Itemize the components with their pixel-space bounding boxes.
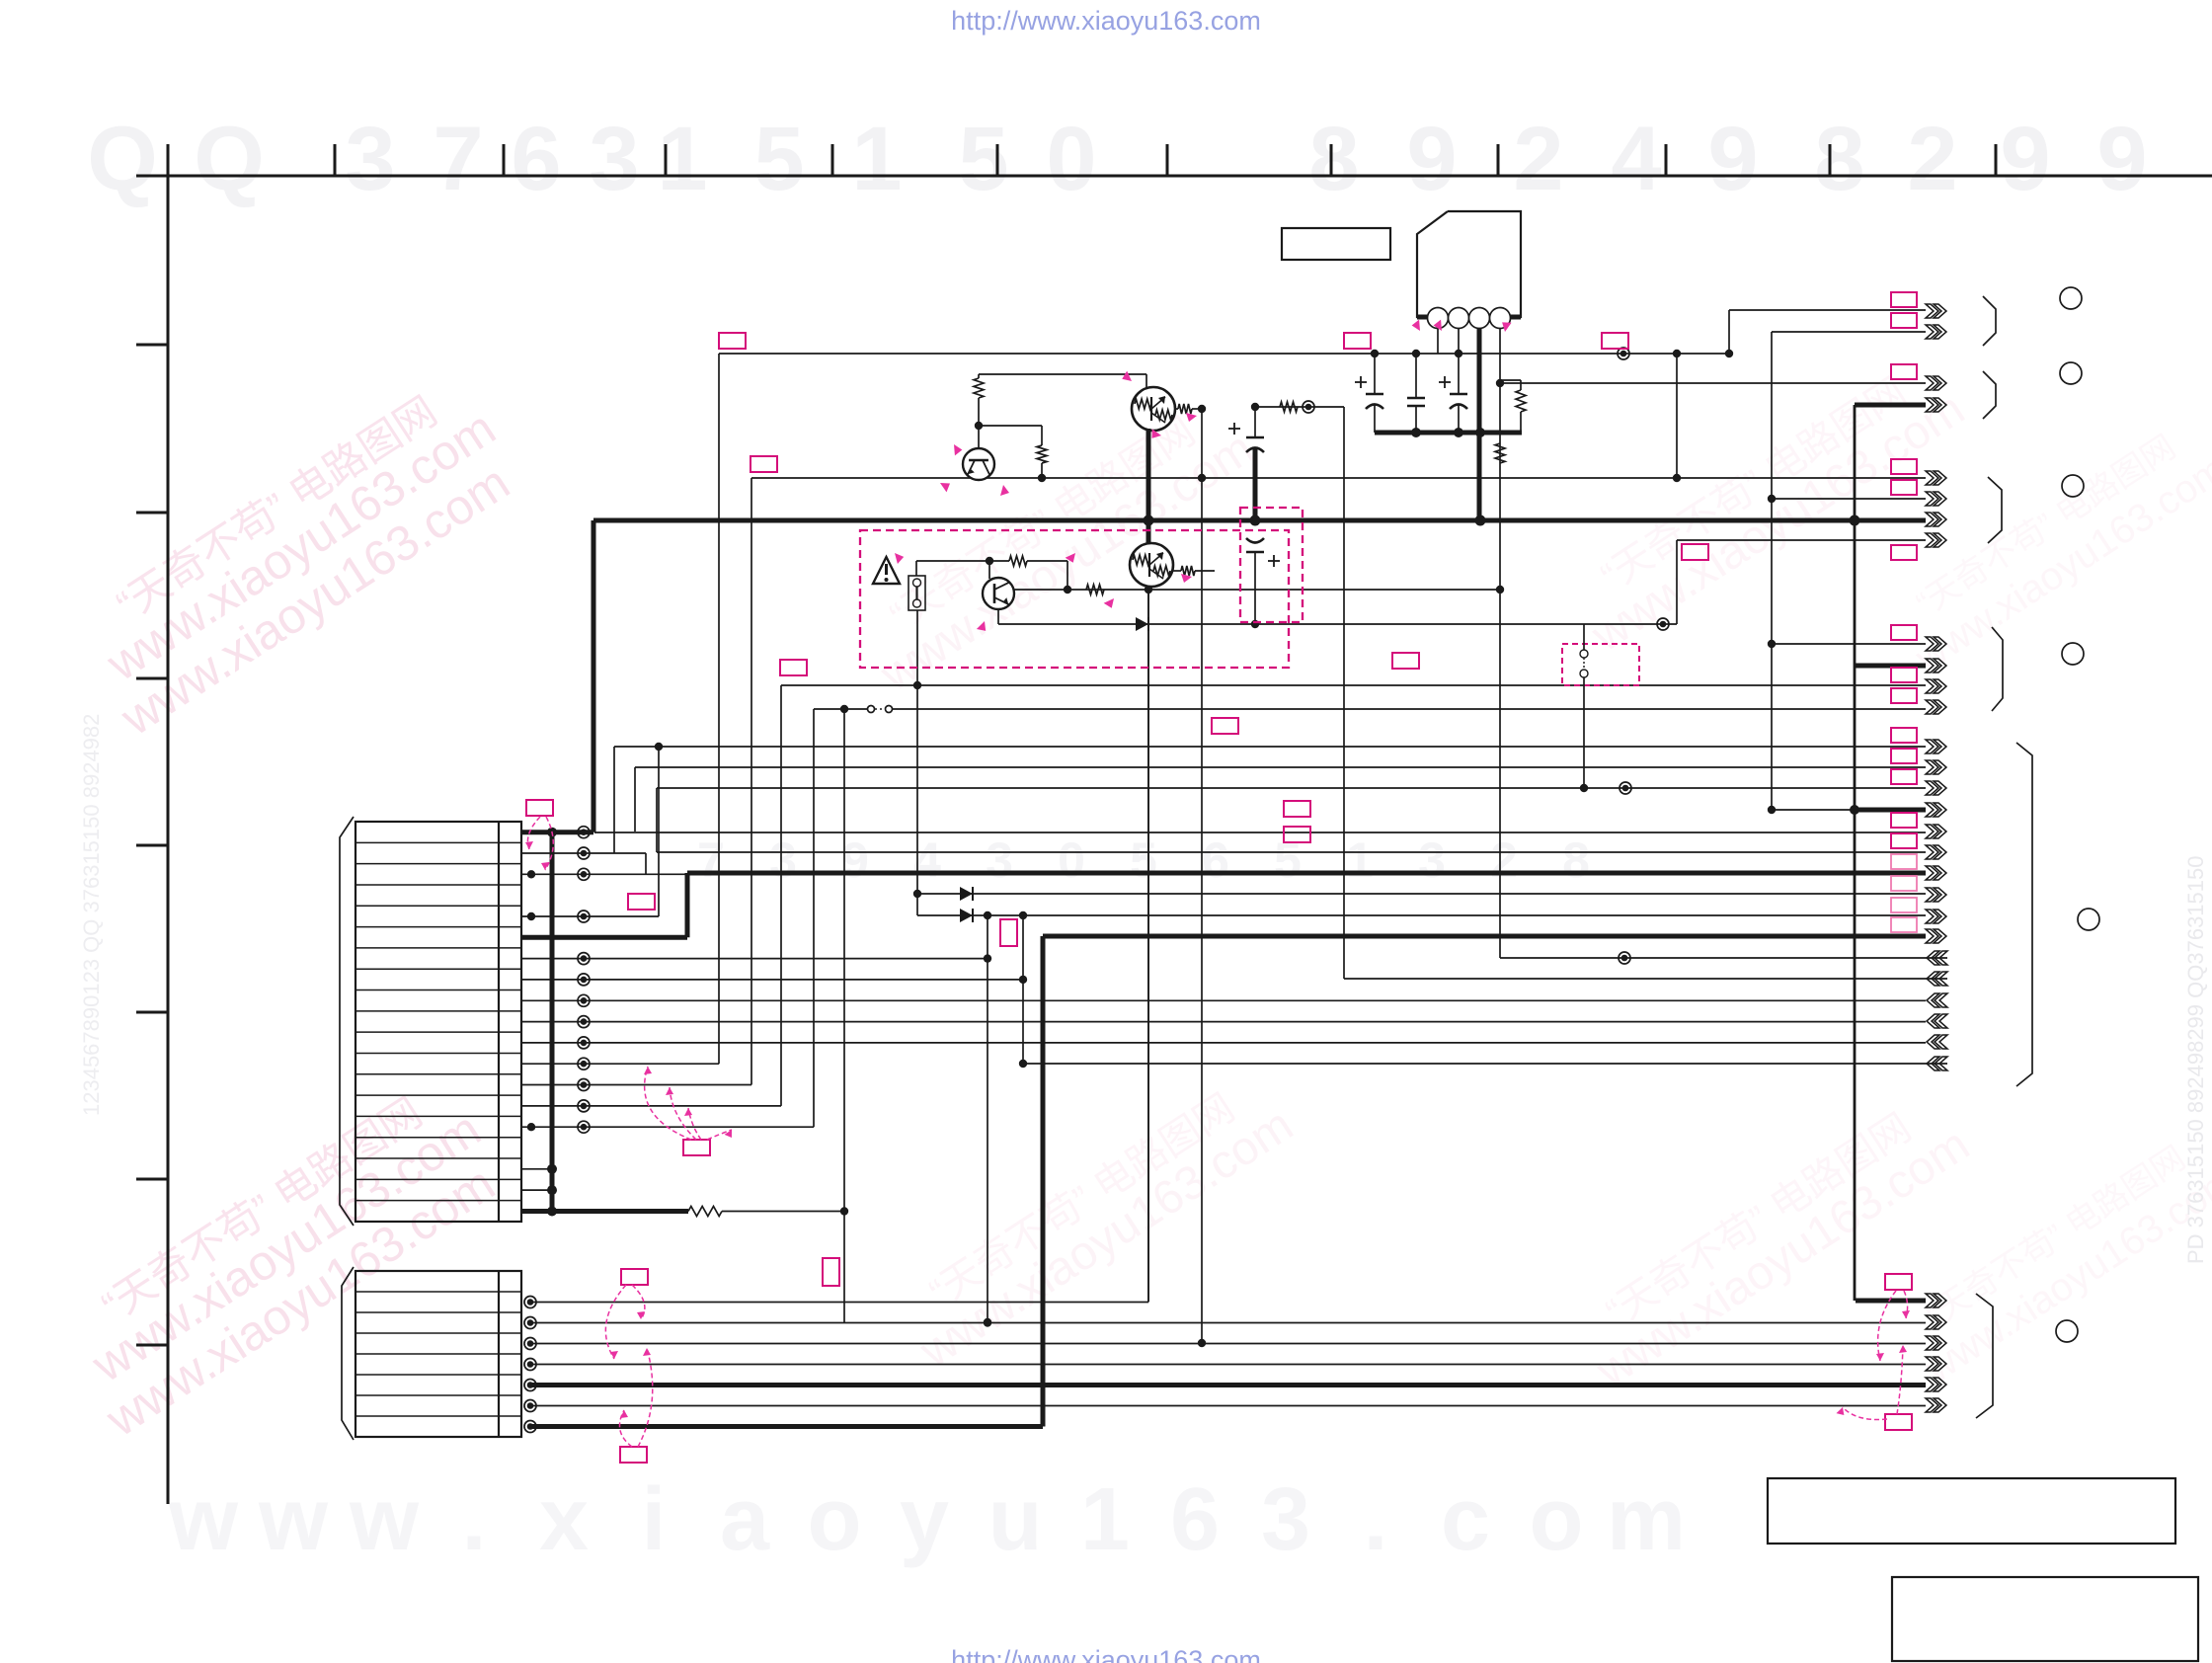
motor M1 outline <box>1417 211 1521 317</box>
title block rectangle <box>1768 1478 2175 1544</box>
wire net V358 top rail <box>719 348 1733 359</box>
connector CN2 body <box>355 1271 521 1437</box>
svg-text:6: 6 <box>1202 832 1229 888</box>
svg-text:8: 8 <box>1562 832 1590 888</box>
thick wire row 948 <box>1043 936 1926 1427</box>
resistor R6 <box>1086 585 1104 594</box>
svg-text:5: 5 <box>958 109 1008 209</box>
svg-text:8: 8 <box>1814 109 1864 209</box>
svg-text:9: 9 <box>1707 109 1758 209</box>
connector CN2 left brace <box>342 1267 354 1440</box>
resistor R2 horizontal <box>1280 402 1298 412</box>
lower right rectangle <box>1892 1577 2198 1661</box>
label box B1 <box>1282 228 1390 260</box>
motor terminal lead 1 <box>1437 328 1439 354</box>
svg-text:.: . <box>1363 1470 1387 1569</box>
svg-text:5: 5 <box>1130 832 1157 888</box>
wire row 820 thick <box>1772 805 1926 815</box>
wire row 777 <box>635 767 1926 831</box>
pink reference label boxes <box>526 292 1917 1463</box>
transistor Q3 digital <box>1130 543 1215 587</box>
connector CN1 pin wires and staircase <box>521 354 1947 1217</box>
thick collector wire Q2-Q3 <box>1146 429 1151 544</box>
svg-text:3: 3 <box>589 109 639 209</box>
svg-text:x: x <box>539 1470 589 1569</box>
capacitor C2 <box>1407 354 1425 433</box>
wire net Q4 base row 597 <box>1014 586 1504 594</box>
small dashed jumper box <box>1562 624 1639 792</box>
svg-text:PD 376315150 892498299 QQ37: PD 376315150 892498299 QQ376315150 <box>2183 856 2208 1264</box>
wire row 863 <box>657 405 1926 1347</box>
svg-text:6: 6 <box>511 109 561 209</box>
svg-text:3: 3 <box>769 832 797 888</box>
wire arrow row 547 <box>1677 540 1926 624</box>
wire to arrow row 315 <box>1729 310 1926 354</box>
svg-text:w: w <box>258 1470 329 1569</box>
svg-text:i: i <box>641 1470 666 1569</box>
pink curved annotation arrows <box>525 817 1910 1447</box>
svg-text:1234567890123 QQ 376315150: 1234567890123 QQ 376315150 8924982 <box>79 714 104 1116</box>
resistor R5 <box>989 556 1067 590</box>
svg-text:3: 3 <box>345 109 395 209</box>
thick wire row 884 <box>687 873 1926 937</box>
svg-text:9: 9 <box>1406 109 1457 209</box>
svg-text:o: o <box>808 1470 862 1569</box>
capacitor C1 electrolytic <box>1355 354 1383 433</box>
connector CN1 body <box>355 822 521 1222</box>
right edge mounting hole circles <box>2056 287 2099 1342</box>
resistor R1 vertical <box>974 374 984 430</box>
svg-text:3: 3 <box>1418 832 1446 888</box>
svg-text:9: 9 <box>841 832 869 888</box>
thick ground rail y438 <box>1375 428 1522 437</box>
wire JP1 top to Q4 base <box>916 557 993 576</box>
motor terminal lead 3 thick <box>1477 328 1482 520</box>
motor terminal lead 4 <box>1496 328 1504 387</box>
wire to arrow row 336 <box>1768 332 1926 814</box>
svg-text:1: 1 <box>1346 832 1374 888</box>
wire row 716 with switch <box>814 705 1926 1322</box>
wire from CN1 row12 to arrow 1077 <box>1023 1063 1947 1065</box>
wire vertical x1000 <box>984 915 991 1326</box>
transistor Q4 <box>983 561 1014 624</box>
svg-text:3: 3 <box>1261 1470 1310 1569</box>
capacitor C5 electrolytic lower <box>1246 538 1280 624</box>
svg-text:2: 2 <box>1907 109 1957 209</box>
connector CN1 left brace <box>340 817 354 1226</box>
svg-text:w: w <box>349 1470 420 1569</box>
svg-text:0: 0 <box>1058 832 1085 888</box>
thick wire arrow row 674 <box>1855 664 1926 669</box>
diode D2 on row 905 <box>960 887 973 901</box>
wire net diode row 632 <box>998 618 1677 630</box>
wire row 798 <box>657 782 1926 852</box>
svg-text:o: o <box>1530 1470 1584 1569</box>
wire row 695 <box>781 681 1926 1106</box>
motor terminal lead 2 <box>1458 328 1460 354</box>
svg-text:.: . <box>461 1470 486 1569</box>
svg-text:2: 2 <box>1490 832 1518 888</box>
motor M1 terminals <box>1428 308 1511 329</box>
wire diode row 906 <box>913 890 1926 898</box>
diode D3 on row 927 <box>960 909 973 922</box>
wire row 842 <box>594 407 1926 979</box>
wire R2b to V484 <box>979 426 1047 478</box>
right edge braces <box>1976 296 2032 1418</box>
svg-text:5: 5 <box>753 109 804 209</box>
svg-text:6: 6 <box>1170 1470 1220 1569</box>
off-page connector arrows <box>1926 304 1947 1412</box>
wire branch x1271 row412 <box>1251 401 1344 413</box>
svg-text:a: a <box>720 1470 770 1569</box>
wire to arrow row 388 <box>1500 382 1926 384</box>
wire Q1 base rail y379 <box>979 373 1146 375</box>
svg-text:http://www.xiaoyu163.com: http://www.xiaoyu163.com <box>951 6 1261 36</box>
svg-text:7: 7 <box>697 832 725 888</box>
svg-text:u: u <box>988 1470 1043 1569</box>
transistor Q2 digital <box>1132 374 1202 431</box>
wire x1519 segment <box>1499 383 1501 958</box>
dashed service box D1 <box>860 530 1289 668</box>
warning triangle <box>873 557 900 584</box>
wire row 756 <box>614 743 1926 853</box>
svg-text:9: 9 <box>2096 109 2147 209</box>
thick corner to bottom arrow 1317 <box>1856 1299 1926 1304</box>
svg-text:w: w <box>168 1470 239 1569</box>
transistor Q1 <box>963 426 994 480</box>
svg-text:1: 1 <box>1080 1470 1130 1569</box>
wire vertical x1036 <box>1019 915 1027 1068</box>
svg-text:y: y <box>900 1470 949 1569</box>
wire Q3 emitter down <box>1147 586 1149 1302</box>
resistor R3 vertical <box>1500 380 1526 433</box>
svg-text:3: 3 <box>986 832 1013 888</box>
svg-text:8: 8 <box>1308 109 1359 209</box>
resistor R4 on x1519 <box>1495 443 1505 463</box>
svg-text:1: 1 <box>851 109 902 209</box>
svg-text:0: 0 <box>1046 109 1096 209</box>
svg-text:www.xiaoyu163.com: www.xiaoyu163.com <box>910 1098 1303 1378</box>
svg-text:7: 7 <box>433 109 483 209</box>
svg-text:Q: Q <box>87 109 158 209</box>
wire arrow row 652 <box>1772 643 1926 645</box>
dashed service box D2 <box>1240 508 1303 622</box>
svg-text:m: m <box>1607 1470 1686 1569</box>
svg-text:2: 2 <box>1513 109 1563 209</box>
border frame with ruler ticks <box>136 144 2212 1504</box>
svg-text:http://www.xiaoyu163.com: http://www.xiaoyu163.com <box>951 1645 1261 1663</box>
svg-text:9: 9 <box>2000 109 2050 209</box>
thick stub arrow row 410 <box>1855 405 1926 1301</box>
svg-text:c: c <box>1441 1470 1490 1569</box>
svg-text:Q: Q <box>194 109 265 209</box>
wire vertical x929 <box>916 610 918 915</box>
wire diode row 928 <box>917 911 1926 919</box>
svg-text:5: 5 <box>1274 832 1302 888</box>
wire net V484 <box>751 354 1926 482</box>
pink pointer arrowheads <box>892 320 1511 634</box>
svg-text:4: 4 <box>1611 109 1661 209</box>
wire stub arrow row 505 <box>1772 498 1926 500</box>
connector CN2 pin wires <box>524 587 1926 1433</box>
jumper JP1 <box>908 576 925 610</box>
thick power bus y527 <box>593 515 1926 526</box>
capacitor C4 electrolytic upper <box>1228 407 1264 520</box>
capacitor C3 electrolytic <box>1439 354 1467 433</box>
diode D1 on row 632 <box>1136 617 1148 631</box>
